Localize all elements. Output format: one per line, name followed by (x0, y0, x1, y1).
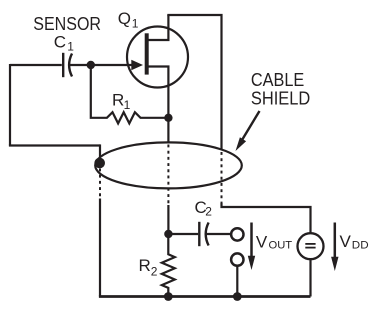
svg-text:C: C (54, 33, 66, 52)
wire drain lead (148, 15, 169, 40)
svg-text:1: 1 (132, 17, 139, 31)
wire source node down to cable entry (167, 118, 169, 143)
terminal VOUT lower (231, 253, 243, 265)
wire left conductor lower (99, 199, 101, 297)
svg-text:CABLE: CABLE (251, 70, 304, 90)
node junction at C1 / gate (87, 61, 95, 69)
wire VDD supply bottom to rail (309, 259, 311, 297)
node junction at C2 / R2 (164, 230, 172, 238)
wire center conductor lower (167, 205, 169, 234)
wire shielded right conductor (dashed) (221, 152, 223, 204)
arrow VDD polarity (334, 223, 337, 259)
svg-text:Q: Q (118, 9, 131, 28)
svg-text:V: V (340, 232, 352, 251)
node junction at R1 / source (164, 114, 172, 122)
node rail at R2 (164, 292, 173, 301)
svg-text:1: 1 (124, 98, 131, 112)
wire C1 to gate node (70, 64, 91, 66)
transistor Q1 body circle (127, 27, 188, 88)
svg-text:SENSOR: SENSOR (33, 14, 101, 34)
svg-text:SHIELD: SHIELD (251, 89, 310, 109)
wire lower terminal to rail (236, 266, 238, 297)
svg-text:DD: DD (352, 240, 369, 252)
voltage source equals symbol (305, 244, 315, 248)
cable shield ellipse (95, 142, 242, 188)
capacitor C1 (63, 53, 72, 77)
svg-text:1: 1 (67, 40, 74, 54)
wire shield to VDD supply top (222, 203, 311, 234)
svg-text:2: 2 (205, 205, 212, 219)
resistor R1 (91, 63, 169, 123)
wire top rail to cable (167, 15, 221, 151)
wire gate lead (91, 64, 133, 66)
capacitor C2 (199, 222, 208, 246)
terminal VOUT upper (231, 228, 243, 240)
wire left vertical of sensor loop (9, 64, 11, 146)
wire short drop to shield node (99, 144, 101, 160)
wire bottom rail (99, 295, 311, 298)
voltage source VDD circle (298, 233, 324, 259)
arrow cable shield pointer (242, 111, 260, 140)
node rail at VOUT return (233, 292, 242, 301)
node shield tie on ellipse (94, 158, 105, 169)
gate arrowhead of Q1 (131, 60, 143, 71)
wire C2 left lead (168, 233, 198, 235)
wire sensor top from left rail to C1 (10, 64, 62, 66)
svg-text:R: R (112, 90, 124, 109)
svg-text:R: R (139, 256, 151, 275)
svg-text:2: 2 (151, 265, 158, 279)
wire C2 right lead to output terminal (206, 233, 231, 235)
svg-text:OUT: OUT (269, 240, 293, 252)
wire shielded left conductor (dashed) (99, 169, 101, 200)
svg-text:V: V (256, 233, 268, 252)
arrow VOUT polarity (250, 223, 253, 258)
wire source lead (148, 67, 169, 119)
wire sensor loop bottom (9, 144, 100, 146)
transistor Q1 channel bar (145, 33, 149, 74)
wire shielded center conductor (dashed) (167, 145, 169, 207)
resistor R2 (162, 233, 175, 297)
